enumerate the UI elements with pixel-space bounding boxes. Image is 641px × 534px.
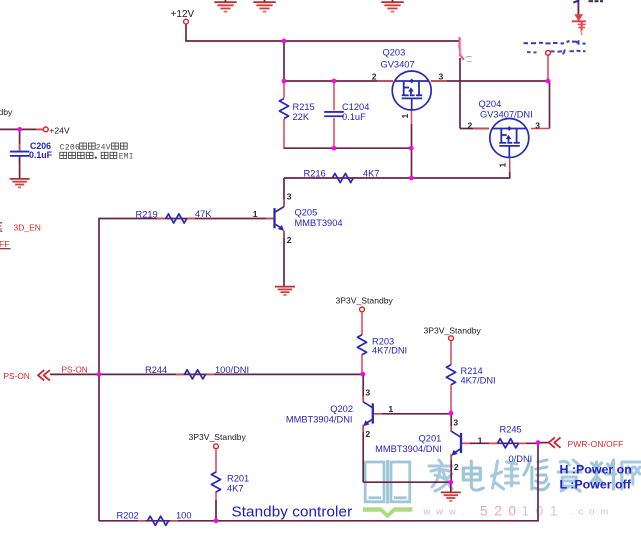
svg-text:Standby controler: Standby controler <box>232 503 353 520</box>
svg-text:100: 100 <box>176 511 192 521</box>
wire Q201 base to R245 <box>461 442 538 444</box>
wire Q203 source pin down <box>411 109 413 124</box>
svg-text:1: 1 <box>253 209 258 219</box>
wire R216 row <box>284 177 510 179</box>
svg-text:3P3V_Standby: 3P3V_Standby <box>189 432 247 442</box>
svg-text:1: 1 <box>498 163 508 168</box>
annotation line2 <box>60 152 67 158</box>
transistor Q205 <box>273 208 275 228</box>
wire PWR-ON/OFF down <box>537 443 539 521</box>
wire Q203 drain to node <box>431 80 550 82</box>
resistor R201 <box>211 472 220 492</box>
svg-text:3: 3 <box>453 418 458 428</box>
junction gate row b <box>332 79 337 84</box>
resistor R214 <box>446 365 455 385</box>
junction gate row a <box>282 79 287 84</box>
terminal 3P3V_Standby low <box>214 444 219 449</box>
wire node down to Q204 drain <box>549 80 551 128</box>
wire Q204 source pin down <box>509 159 511 172</box>
svg-text:4K7/DNI: 4K7/DNI <box>461 376 496 386</box>
junction q203 pin1 r216 <box>409 176 414 181</box>
ground top 1 <box>214 1 236 3</box>
wire C1204 leads <box>333 81 335 110</box>
svg-text:GV3407/DNI: GV3407/DNI <box>480 110 533 120</box>
svg-text:0/DNI: 0/DNI <box>509 454 533 464</box>
svg-text:5 2 0: 5 2 0 <box>480 503 518 518</box>
ground top 2 <box>253 1 275 3</box>
red bracket fragment left edge <box>0 223 2 232</box>
ground below C206 <box>10 178 30 180</box>
svg-text:MMBT3904: MMBT3904 <box>295 218 343 228</box>
svg-text:3: 3 <box>365 387 370 397</box>
mosfet Q203 <box>392 71 431 110</box>
resistor R203 <box>357 335 366 355</box>
terminal 3P3V_Standby right <box>449 336 454 341</box>
wire Q201 collector up <box>450 413 452 432</box>
svg-text:3: 3 <box>535 120 540 130</box>
svg-text:R202: R202 <box>117 511 139 521</box>
watermark green swoosh <box>363 507 412 518</box>
svg-text:+12V: +12V <box>171 9 195 20</box>
svg-text:3: 3 <box>439 71 444 81</box>
junction 12V node <box>546 79 551 84</box>
ground top 3 <box>381 1 403 3</box>
struck-out net label +12V (fragments) <box>524 42 529 44</box>
svg-text:R244: R244 <box>145 365 167 375</box>
svg-text:PS-ON: PS-ON <box>62 364 88 374</box>
resistor R245 <box>498 439 519 448</box>
svg-text:Q203: Q203 <box>383 47 406 57</box>
wire bottom rail R215/C1204 <box>284 147 411 149</box>
svg-text:Q202: Q202 <box>330 404 353 414</box>
svg-text:R215: R215 <box>293 102 315 112</box>
svg-text:4K7/DNI: 4K7/DNI <box>372 346 407 356</box>
wire terminal to node 12V <box>547 55 549 81</box>
wire PS-ON row <box>50 373 363 375</box>
pin stubs Q203 <box>377 80 393 82</box>
wire R203 leads <box>361 312 363 335</box>
wire Q202 collector up <box>362 374 364 403</box>
resistor R219 <box>166 214 187 223</box>
svg-text:1: 1 <box>400 114 410 119</box>
svg-text:C1204: C1204 <box>342 102 369 112</box>
svg-text:22K: 22K <box>293 112 310 122</box>
junction q203 pin1 rail <box>409 146 414 151</box>
svg-text:3D_EN: 3D_EN <box>14 222 41 232</box>
svg-text:L :Power off: L :Power off <box>560 478 632 492</box>
resistor R244 <box>185 370 206 379</box>
svg-text:1: 1 <box>388 404 393 414</box>
erased pink squiggle at 12V branch <box>459 37 464 60</box>
junction bottom rail c1204 <box>332 146 337 151</box>
svg-text:. c o m: . c o m <box>570 506 610 517</box>
svg-text:PWR-ON/OFF: PWR-ON/OFF <box>568 439 624 449</box>
resistor R215 <box>279 99 288 119</box>
svg-text:R214: R214 <box>461 366 483 376</box>
junction ps-on <box>97 372 102 377</box>
svg-text:C206: C206 <box>60 144 80 152</box>
svg-text:PS-ON: PS-ON <box>4 371 30 381</box>
terminal 12V node (struck) <box>546 50 551 55</box>
wire R215 leads <box>283 81 285 98</box>
svg-text:R216: R216 <box>304 169 326 179</box>
svg-text:R245: R245 <box>500 425 522 435</box>
svg-text:2: 2 <box>372 71 377 81</box>
svg-text:MMBT3904/DNI: MMBT3904/DNI <box>286 414 353 424</box>
capacitor C206 <box>10 151 30 153</box>
svg-text:dby: dby <box>0 107 13 117</box>
wire +12V rail <box>185 24 187 41</box>
wire erased branch to Q204 gate <box>459 58 461 129</box>
wire R201 leads <box>215 449 217 473</box>
svg-text:Q201: Q201 <box>419 434 442 444</box>
wire Q203 gate row <box>283 80 393 82</box>
erased red component top right <box>577 0 579 15</box>
top edge blue fragment <box>573 0 579 2</box>
resistor R216 <box>332 173 353 182</box>
svg-text:4K7: 4K7 <box>363 169 380 179</box>
erased grey scribble <box>466 56 472 61</box>
svg-text:47K: 47K <box>195 209 212 219</box>
junction 24V <box>17 127 22 132</box>
svg-text:H :Power on: H :Power on <box>560 463 632 477</box>
wire PWR stub from junction to chevron <box>538 442 549 444</box>
junction top rail <box>282 39 287 44</box>
mosfet Q204 <box>490 119 529 158</box>
wire emitters row <box>363 481 451 483</box>
svg-text:EMI: EMI <box>119 154 134 162</box>
svg-text:4K7: 4K7 <box>227 484 244 494</box>
svg-text:2: 2 <box>468 120 473 130</box>
svg-text:24V: 24V <box>96 144 111 152</box>
junction r214 q201 <box>449 411 454 416</box>
ground below Q205 <box>275 286 295 288</box>
wire Q205 emitter to ground <box>283 231 285 287</box>
svg-text:3P3V_Standby: 3P3V_Standby <box>424 326 482 336</box>
svg-text:FF: FF <box>0 239 9 249</box>
svg-text:2: 2 <box>454 462 459 472</box>
top ground stems <box>225 0 227 2</box>
svg-text:MMBT3904/DNI: MMBT3904/DNI <box>375 444 442 454</box>
watermark chinese characters <box>429 460 452 491</box>
terminal 3P3V_Standby mid <box>360 307 365 312</box>
wire R219 row <box>99 218 275 220</box>
svg-text:2: 2 <box>365 429 370 439</box>
svg-text:1: 1 <box>478 435 483 445</box>
watermark book logo <box>365 462 410 502</box>
svg-text:3P3V_Standby: 3P3V_Standby <box>336 296 394 306</box>
wire bottom rail <box>99 520 539 522</box>
wire +24V row <box>0 128 43 130</box>
svg-text:Q204: Q204 <box>479 99 502 109</box>
wire Q201 emitter down <box>450 454 452 482</box>
wire R214 leads <box>450 341 452 365</box>
wire left vertical bus <box>98 218 100 521</box>
svg-text:3: 3 <box>287 192 292 202</box>
off-page connector PWR-ON/OFF <box>549 437 561 447</box>
top edge dark text fragment <box>589 0 604 2</box>
svg-text:Q205: Q205 <box>295 208 318 218</box>
wire Q202 emitter down <box>362 425 364 483</box>
wire Q202 base row <box>373 413 451 415</box>
junction r201 rail <box>214 518 219 523</box>
transistor Q202 <box>372 403 374 423</box>
svg-text:2: 2 <box>287 235 292 245</box>
transistor Q201 <box>460 433 462 453</box>
off-page connector PS-ON <box>38 370 50 380</box>
svg-text:GV3407: GV3407 <box>381 60 415 70</box>
svg-text:+24V: +24V <box>49 125 70 135</box>
ground below Q201 <box>441 491 461 493</box>
resistor R202 <box>148 516 169 525</box>
svg-text:R219: R219 <box>136 209 158 219</box>
terminal +24V <box>43 127 48 132</box>
svg-text:0.1uF: 0.1uF <box>342 112 366 122</box>
wire C206 leads <box>19 129 21 150</box>
wire ground stem Q201/Q202 <box>450 482 452 492</box>
wire Q205 collector <box>283 178 285 207</box>
svg-text:0.1uF: 0.1uF <box>29 150 53 160</box>
terminal +12V <box>184 19 189 24</box>
capacitor C1204 <box>324 111 344 113</box>
svg-text:R201: R201 <box>227 473 249 483</box>
junction pwr-on <box>536 440 541 445</box>
junction emitters <box>448 480 453 485</box>
svg-text:1 0 1: 1 0 1 <box>522 503 560 518</box>
junction r203 q202 <box>361 372 366 377</box>
svg-text:100/DNI: 100/DNI <box>215 365 249 375</box>
wire +12V to R215 branch <box>283 41 285 81</box>
svg-text:w w w .: w w w . <box>423 506 466 517</box>
